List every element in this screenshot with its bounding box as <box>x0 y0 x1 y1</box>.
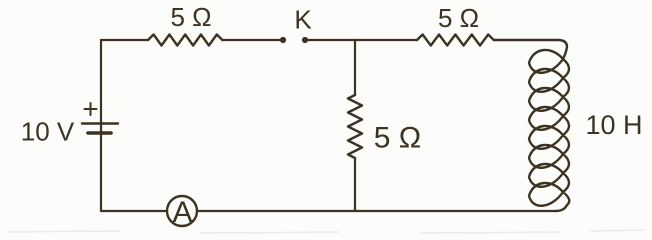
inductor L1 10 H coil (wire from R2, corner, 8 loops, exit to bottom wire) <box>494 40 569 211</box>
svg-text:5 Ω: 5 Ω <box>170 2 211 32</box>
svg-text:5 Ω: 5 Ω <box>438 3 479 33</box>
resistor R3 5-ohm (middle vertical zigzag) <box>348 95 362 158</box>
battery B1 long plate (positive) <box>82 122 118 124</box>
svg-text:10 H: 10 H <box>585 110 642 140</box>
wire left vertical <box>100 40 102 211</box>
wire resistor R1 to switch <box>222 39 282 41</box>
wire bottom left segment <box>101 210 167 212</box>
svg-text:K: K <box>294 5 312 35</box>
svg-text:5 Ω: 5 Ω <box>374 122 421 155</box>
wire junction to resistor R2 <box>355 39 417 41</box>
battery B1 short plate (negative) <box>88 131 111 135</box>
wire bottom right segment <box>197 210 556 212</box>
resistor R1 5-ohm (top-left zigzag) <box>148 35 222 46</box>
svg-text:10 V: 10 V <box>21 117 75 147</box>
scan artifact faint bottom streak <box>8 230 645 233</box>
wire middle branch vertical top <box>354 40 356 95</box>
switch K terminal dot left <box>280 37 286 43</box>
battery B1 plus sign <box>85 103 97 115</box>
wire middle branch vertical bottom <box>354 158 356 211</box>
switch K terminal dot right <box>302 37 308 43</box>
svg-text:A: A <box>172 196 192 229</box>
wire top-left segment <box>101 39 148 41</box>
ammeter A1 circle <box>167 196 197 226</box>
resistor R2 5-ohm (top-right zigzag) <box>417 35 494 46</box>
wire switch to junction <box>305 39 355 41</box>
